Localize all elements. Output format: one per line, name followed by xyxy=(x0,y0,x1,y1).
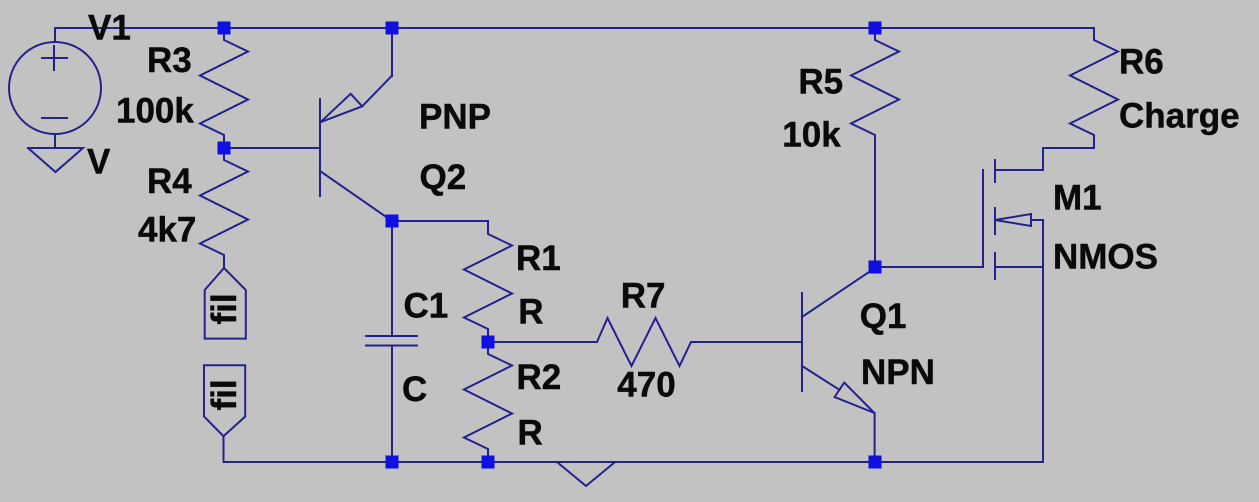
svg-text:R1: R1 xyxy=(516,239,561,278)
svg-text:Q1: Q1 xyxy=(860,297,907,336)
svg-text:R: R xyxy=(518,414,543,453)
svg-text:470: 470 xyxy=(617,366,675,405)
svg-text:PNP: PNP xyxy=(419,97,491,136)
svg-text:R3: R3 xyxy=(147,41,192,80)
svg-text:R: R xyxy=(518,293,543,332)
svg-text:10k: 10k xyxy=(782,115,841,154)
svg-text:R6: R6 xyxy=(1119,43,1164,82)
svg-text:fil: fil xyxy=(205,379,244,410)
svg-text:C1: C1 xyxy=(404,287,449,326)
svg-text:Q2: Q2 xyxy=(420,158,467,197)
svg-text:M1: M1 xyxy=(1053,179,1102,218)
svg-text:R7: R7 xyxy=(621,276,666,315)
svg-text:R4: R4 xyxy=(147,162,192,201)
svg-text:V1: V1 xyxy=(88,9,131,48)
svg-text:100k: 100k xyxy=(116,92,194,131)
svg-text:C: C xyxy=(402,370,427,409)
svg-text:fil: fil xyxy=(205,293,244,324)
svg-text:V: V xyxy=(87,142,111,181)
svg-text:R5: R5 xyxy=(798,63,843,102)
svg-text:NPN: NPN xyxy=(861,353,935,392)
svg-text:4k7: 4k7 xyxy=(138,210,196,249)
svg-text:NMOS: NMOS xyxy=(1053,238,1158,277)
svg-text:Charge: Charge xyxy=(1119,96,1240,135)
svg-text:R2: R2 xyxy=(517,358,562,397)
